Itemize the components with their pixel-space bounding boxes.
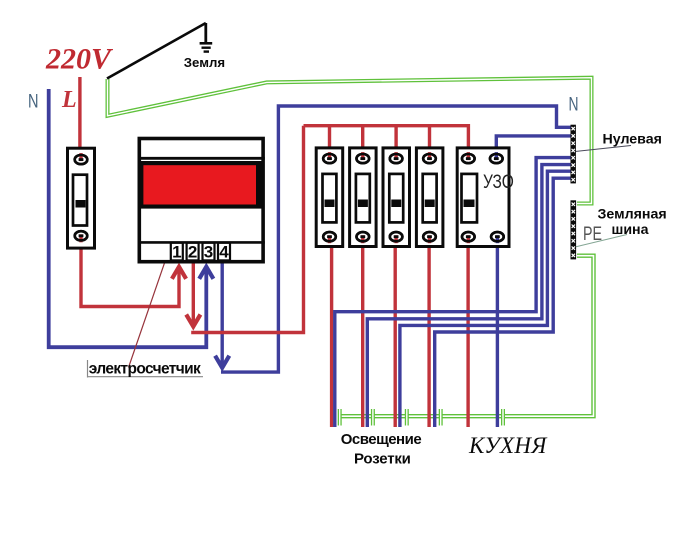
svg-text:электросчетчик: электросчетчик (89, 361, 201, 378)
breaker QF0 (input, single pole) (68, 148, 95, 248)
svg-text:1: 1 (172, 243, 181, 262)
wire: neutral return 3 from bus (400, 171, 571, 427)
wire: UZO output neutral down to kitchen (496, 237, 499, 427)
arrow: blue up into meter terminal 3 (199, 267, 213, 279)
svg-text:L: L (61, 87, 77, 113)
wire: bus drop to breaker QF3 (394, 126, 397, 160)
svg-text:3: 3 (204, 243, 213, 262)
svg-text:Розетки: Розетки (354, 451, 411, 468)
wire: green stub 2 (371, 409, 375, 426)
wire: meter terminal 2 down (192, 263, 195, 324)
meter terminal cell 4 (218, 243, 230, 261)
meter terminal cell 1 (171, 243, 183, 261)
wire: neutral return 1 from bus (335, 158, 571, 427)
meter display frame (140, 161, 262, 209)
wire: UZO phase output down (466, 237, 469, 427)
svg-text:шина: шина (612, 222, 649, 238)
neutral bus bar (571, 125, 576, 184)
meter terminal row line (138, 241, 265, 244)
callout line to meter (129, 228, 177, 367)
meter terminal cell 3 (203, 243, 215, 261)
wire: bus drop to breaker QF2 (361, 126, 364, 160)
svg-text:Земляная: Земляная (598, 206, 667, 222)
wire: neutral return 2 from bus (367, 165, 570, 427)
wire: breaker QF2 output down (361, 237, 364, 427)
meter display red screen (143, 165, 256, 204)
svg-text:УЗО: УЗО (483, 171, 514, 193)
wire: meter terminal 4 down (220, 263, 223, 365)
wire: green stub 5 (501, 409, 505, 426)
wire: left breaker bottom to meter terminal 1 (81, 236, 179, 307)
svg-text:4: 4 (219, 243, 229, 262)
wire: green PE bottom run from PE bus to loads (340, 256, 594, 417)
svg-text:2: 2 (188, 243, 197, 262)
wire: red feed bus over breakers (304, 126, 469, 158)
breaker QF3 (383, 148, 410, 247)
svg-text:Нулевая: Нулевая (603, 131, 662, 147)
breaker QF4 (416, 148, 443, 247)
wire: neutral return 4 from bus (435, 178, 571, 427)
svg-text:Освещение: Освещение (341, 431, 422, 448)
arrow: blue down from terminal 4 (215, 356, 229, 368)
wire: UZO neutral to bus (496, 136, 570, 158)
PE ground bus bar (571, 200, 577, 259)
svg-text:КУХНЯ: КУХНЯ (468, 433, 548, 458)
wire: breaker QF1 output down (330, 237, 333, 427)
arrow: red up into meter terminal 1 (172, 267, 186, 279)
svg-text:220V: 220V (45, 43, 114, 76)
wire: green stub 3 (405, 409, 409, 426)
meter terminal cell 2 (187, 243, 199, 261)
wire: ground black lead (107, 23, 206, 79)
RCD UZO U1 (457, 148, 514, 247)
breaker QF1 (316, 148, 343, 247)
svg-text:N: N (569, 94, 579, 115)
arrow: red down from terminal 2 (186, 315, 200, 327)
label electroschetchik box (88, 360, 204, 378)
breaker QF2 (350, 148, 377, 247)
callout line to PE bus (573, 235, 627, 248)
wire: red run to breaker bus riser (191, 126, 303, 333)
wire: breaker QF3 output down (394, 237, 397, 427)
svg-text:Земля: Земля (184, 55, 225, 70)
ground symbol (200, 23, 213, 52)
wire: green stub 4 (439, 409, 443, 426)
electricity meter body (138, 139, 265, 262)
wire: bus drop to breaker QF1 (328, 126, 331, 160)
wire: breaker QF4 output down (427, 237, 430, 427)
wire: green PE run (earth lead to PE bus) outer (108, 78, 592, 204)
wire: blue run up and over to neutral bus (221, 106, 571, 372)
wire: bus drop to breaker QF4 (428, 126, 431, 160)
callout line to neutral bus (575, 146, 631, 152)
wire: N source vertical + bottom run to meter terminal 3 (49, 89, 207, 347)
wire: L source vertical to left breaker (78, 77, 81, 160)
svg-text:N: N (28, 92, 39, 113)
wire: green stub 1 (338, 409, 342, 426)
svg-text:PE: PE (583, 223, 602, 245)
